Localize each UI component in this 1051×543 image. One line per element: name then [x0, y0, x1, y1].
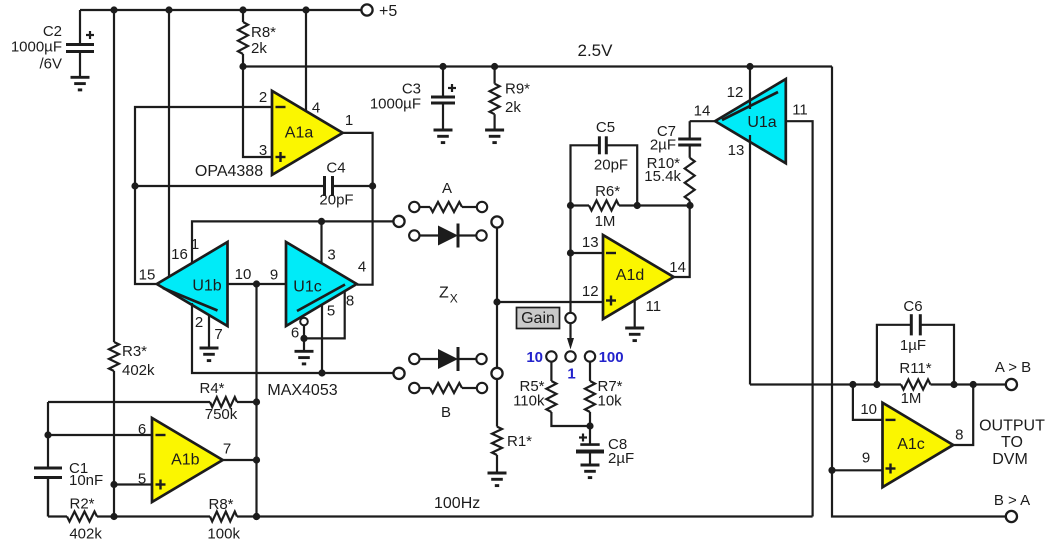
svg-text:13: 13 [728, 142, 745, 159]
op-amp A1b [152, 418, 223, 502]
resistor R4 [48, 380, 257, 435]
capacitor C5 [571, 119, 638, 206]
svg-text:9: 9 [862, 450, 870, 467]
analog switch U1b [157, 242, 228, 326]
svg-text:C2: C2 [43, 23, 62, 40]
ground C2 [71, 77, 90, 90]
terminal A>B [995, 359, 1031, 390]
capacitor C8 [576, 422, 634, 467]
svg-text:C5: C5 [596, 119, 615, 136]
svg-text:2.5V: 2.5V [578, 41, 614, 60]
svg-text:OUTPUT: OUTPUT [979, 418, 1045, 435]
wire 2.5V down rail [828, 67, 1005, 517]
svg-text:3: 3 [327, 246, 335, 263]
capacitor C1 [34, 431, 103, 516]
resistor R11 [899, 360, 931, 407]
svg-text:Gain: Gain [521, 310, 555, 327]
wire A1b pin 6 (- input) [48, 421, 152, 438]
wire U1b pin 15 [135, 186, 156, 284]
wire U1c pin 8 [304, 292, 354, 338]
svg-text:B > A: B > A [994, 492, 1030, 509]
node Zx (label) [439, 285, 458, 306]
switch contact A common left [393, 216, 404, 227]
resistor branch B [409, 383, 487, 393]
svg-text:OPA4388: OPA4388 [195, 163, 263, 180]
wire U1a pin 13 [728, 135, 750, 385]
wire U1c pin 5 [318, 302, 335, 376]
svg-text:14: 14 [694, 102, 711, 119]
svg-text:15: 15 [139, 266, 156, 283]
resistor R10 [644, 155, 694, 206]
label OUTPUT TO DVM [979, 418, 1045, 469]
wire U1b pin 7 + ground [200, 315, 223, 361]
svg-text:402k: 402k [69, 526, 102, 543]
svg-text:15.4k: 15.4k [644, 168, 681, 185]
svg-text:2k: 2k [251, 40, 267, 57]
resistor R8 (top) [238, 10, 276, 67]
wire A1c pin 9 (+ input) [832, 450, 883, 471]
svg-text:2µF: 2µF [608, 450, 634, 467]
label OPA4388 [195, 163, 263, 180]
U1c pin 6 bubble + ground [291, 318, 314, 364]
svg-text:1µF: 1µF [900, 337, 926, 354]
svg-text:110k: 110k [513, 393, 545, 410]
svg-text:U1a: U1a [747, 114, 776, 131]
svg-text:R11*: R11* [899, 360, 931, 377]
label U1c pin 4 [358, 258, 366, 275]
terminal B>A [994, 492, 1030, 522]
node A (label) [442, 180, 452, 197]
svg-text:R4*: R4* [199, 380, 224, 397]
svg-text:8: 8 [346, 292, 354, 309]
svg-text:1: 1 [567, 366, 575, 383]
wire A1c pin 8 output [953, 385, 973, 446]
svg-text:B: B [441, 404, 451, 421]
svg-text:2: 2 [259, 89, 267, 106]
svg-text:7: 7 [223, 441, 231, 458]
svg-text:14: 14 [669, 259, 686, 276]
svg-text:1000µF: 1000µF [370, 96, 421, 113]
svg-text:A1b: A1b [171, 452, 200, 469]
svg-text:A1c: A1c [897, 436, 925, 453]
capacitor C7 [650, 121, 701, 158]
ground R9 [485, 130, 504, 143]
svg-text:20pF: 20pF [319, 192, 353, 209]
wire A1a pin 4 [306, 10, 320, 116]
wire A1b pin 7 output [223, 441, 257, 460]
svg-text:2µF: 2µF [650, 137, 676, 154]
svg-text:11: 11 [792, 101, 808, 118]
svg-text:2k: 2k [505, 99, 521, 116]
wire node Zx [493, 228, 500, 368]
node 100Hz (label) [434, 495, 480, 512]
svg-text:Z: Z [439, 285, 449, 302]
resistor R5 [513, 362, 590, 427]
capacitor C4 [131, 160, 376, 209]
wire A1b pin 5 (+ input) [110, 471, 152, 489]
wire U1a pin 12 [727, 67, 750, 110]
svg-text:9: 9 [270, 266, 278, 283]
svg-text:13: 13 [582, 234, 599, 251]
diode branch A [409, 224, 487, 248]
svg-text:1: 1 [345, 112, 353, 129]
wire U1a pin 14 [690, 102, 716, 121]
wire U1b pin 2 [192, 303, 393, 373]
svg-text:12: 12 [727, 84, 744, 101]
wire A1d pin 12 (+ input) [497, 283, 603, 302]
resistor R6 [567, 183, 694, 230]
wire A>B line [750, 381, 1006, 388]
wire A1d pin 13 (- input) [567, 234, 603, 257]
svg-text:R6*: R6* [595, 183, 620, 200]
svg-text:3: 3 [259, 142, 267, 159]
svg-text:4: 4 [358, 258, 366, 275]
svg-text:16: 16 [171, 246, 188, 263]
svg-text:R8*: R8* [208, 496, 233, 513]
svg-text:5: 5 [138, 471, 146, 488]
resistor R1 [492, 379, 532, 473]
svg-text:2: 2 [195, 314, 203, 331]
wire A1a pin 1 output [343, 112, 373, 285]
switch contact A common right [491, 216, 502, 227]
svg-text:750k: 750k [205, 406, 238, 423]
svg-text:8: 8 [955, 426, 963, 443]
svg-text:20pF: 20pF [594, 157, 628, 174]
node 2.5V [578, 41, 614, 60]
svg-text:10: 10 [860, 401, 877, 418]
svg-text:A1a: A1a [285, 125, 314, 142]
svg-text:X: X [450, 292, 458, 306]
capacitor C3 [370, 67, 456, 131]
analog switch U1c [286, 242, 357, 326]
svg-text:/6V: /6V [39, 56, 62, 73]
svg-text:R3*: R3* [122, 343, 147, 360]
wire U1a pin 11 [786, 101, 813, 516]
resistor R3 [109, 10, 155, 517]
op-amp A1c [883, 403, 954, 488]
wire A1a pin 2 [135, 89, 272, 186]
svg-text:12: 12 [582, 283, 599, 300]
svg-text:1000µF: 1000µF [11, 39, 62, 56]
svg-text:U1b: U1b [192, 278, 221, 295]
ground C8 [581, 465, 600, 478]
wire A1d pin 14 output [669, 206, 689, 278]
svg-text:+5: +5 [379, 3, 397, 20]
svg-text:6: 6 [138, 421, 146, 438]
ground C3 [434, 130, 453, 143]
op-amp A1a [272, 91, 343, 175]
wire A1a pin 3 [243, 67, 271, 159]
wire feedback node vertical [253, 284, 260, 520]
svg-text:DVM: DVM [992, 451, 1028, 468]
svg-text:100: 100 [599, 349, 624, 366]
wire 2.5V rail [239, 63, 832, 70]
resistor branch A [409, 202, 487, 212]
wire 100Hz bottom rail [48, 478, 813, 521]
svg-text:U1c: U1c [293, 279, 321, 296]
svg-text:6: 6 [291, 324, 299, 341]
wire +5 rail [80, 6, 361, 13]
svg-text:100k: 100k [207, 526, 240, 543]
op-amp A1d [603, 235, 674, 319]
svg-text:1M: 1M [901, 390, 922, 407]
svg-text:402k: 402k [122, 362, 155, 379]
svg-text:A: A [442, 180, 452, 197]
resistor R9 [490, 67, 531, 131]
svg-text:R2*: R2* [69, 496, 94, 513]
svg-text:10: 10 [235, 266, 252, 283]
analog switch U1a [715, 79, 786, 163]
wire U1b pin 16 [169, 10, 188, 276]
resistor R8 (bottom) [207, 496, 240, 543]
svg-text:MAX4053: MAX4053 [267, 382, 337, 399]
svg-text:A > B: A > B [995, 359, 1031, 376]
svg-text:R8*: R8* [251, 24, 276, 41]
svg-text:10k: 10k [598, 393, 623, 410]
svg-text:1: 1 [191, 236, 199, 253]
wire gain wiper [569, 206, 571, 314]
wire U1b pin 10 / U1c pin 9 [228, 266, 287, 288]
switch contact B common left [393, 368, 404, 379]
svg-text:R9*: R9* [505, 81, 530, 98]
terminal +5 [361, 3, 397, 20]
svg-text:7: 7 [214, 326, 222, 343]
svg-text:10: 10 [526, 349, 543, 366]
svg-text:11: 11 [646, 298, 662, 315]
svg-text:5: 5 [327, 302, 335, 319]
svg-text:TO: TO [1001, 434, 1023, 451]
svg-text:A1d: A1d [616, 267, 644, 284]
svg-text:1M: 1M [595, 213, 616, 230]
wire A1d pin 11 + ground [625, 298, 661, 341]
capacitor C6 [877, 298, 954, 385]
svg-text:C6: C6 [903, 298, 922, 315]
switch Gain [517, 308, 624, 383]
svg-text:10nF: 10nF [69, 472, 103, 489]
label MAX4053 [267, 382, 337, 399]
wire U1b pin 1 / U1c pin 3 [191, 218, 394, 266]
resistor R7 [585, 362, 623, 427]
capacitor C2 [11, 10, 94, 77]
wire A1c pin 10 (- input) [853, 385, 883, 420]
svg-text:C4: C4 [326, 160, 345, 177]
svg-text:100Hz: 100Hz [434, 495, 480, 512]
diode branch B [409, 347, 487, 371]
resistor R2 [67, 496, 102, 543]
switch contact B common right [491, 368, 502, 379]
ground R1 [488, 473, 507, 486]
node B (label) [441, 404, 451, 421]
svg-text:R1*: R1* [507, 433, 532, 450]
